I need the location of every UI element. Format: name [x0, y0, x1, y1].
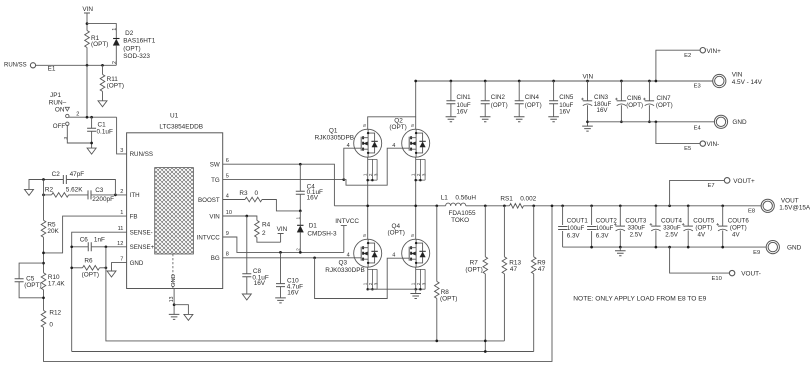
- svg-text:17.4K: 17.4K: [48, 281, 65, 288]
- svg-text:0.002: 0.002: [520, 196, 536, 203]
- svg-text:ON: ON: [55, 106, 65, 113]
- svg-text:7: 7: [120, 257, 123, 263]
- junction C5 bottom: [42, 296, 45, 299]
- svg-text:330uF: 330uF: [663, 225, 681, 232]
- svg-text:COUT3: COUT3: [625, 217, 647, 224]
- svg-text:C3: C3: [95, 187, 104, 194]
- svg-text:16V: 16V: [597, 107, 609, 114]
- svg-text:CMDSH-3: CMDSH-3: [307, 231, 337, 238]
- svg-text:(OPT): (OPT): [440, 296, 457, 303]
- wire cap gnd rail to E4: [588, 121, 715, 123]
- wire CIN7 bottom lead: [648, 105, 650, 122]
- wire E10 branch: [670, 247, 730, 273]
- svg-text:E9: E9: [753, 250, 760, 256]
- svg-text:8: 8: [226, 252, 229, 258]
- svg-text:VOUT-: VOUT-: [741, 271, 761, 278]
- diode D2: [113, 38, 119, 40]
- wire CIN3 top lead: [587, 81, 589, 101]
- svg-text:TOKO: TOKO: [451, 217, 469, 224]
- svg-text:(OPT): (OPT): [389, 124, 406, 131]
- wire CIN1 top lead: [450, 81, 452, 101]
- svg-text:VIN+: VIN+: [707, 48, 722, 55]
- svg-text:4: 4: [347, 253, 350, 259]
- svg-text:47pF: 47pF: [70, 171, 85, 178]
- svg-text:GND: GND: [732, 119, 747, 126]
- svg-text:6.3V: 6.3V: [596, 232, 610, 239]
- wire pin13 to triangle ground: [174, 305, 188, 315]
- wire VIN input rail: [416, 80, 713, 82]
- svg-text:R2: R2: [45, 186, 54, 193]
- svg-text:5: 5: [226, 174, 229, 180]
- svg-text:INTVCC: INTVCC: [197, 234, 221, 241]
- svg-text:100uF: 100uF: [567, 225, 585, 232]
- capacitor CIN2: [481, 101, 490, 104]
- svg-text:E1: E1: [48, 66, 56, 73]
- svg-text:GND: GND: [787, 245, 802, 252]
- svg-text:VIN: VIN: [209, 213, 219, 220]
- svg-text:2: 2: [262, 230, 266, 237]
- svg-text:E7: E7: [708, 183, 715, 189]
- resistor R6: [83, 266, 100, 271]
- junction TG riser: [342, 178, 345, 181]
- junction R7/SENSE+ rail: [484, 340, 487, 343]
- capacitor CIN6: [617, 100, 626, 102]
- junction BOOST/C4/D1: [299, 210, 302, 213]
- svg-text:16V: 16V: [457, 109, 469, 116]
- junction E7 riser: [668, 204, 671, 207]
- svg-text:E2: E2: [684, 53, 691, 59]
- capacitor C3: [88, 190, 91, 199]
- svg-text:0: 0: [255, 190, 259, 197]
- ground below Q3/Q4: [410, 294, 421, 299]
- wire COUT1 top lead: [562, 206, 564, 225]
- wire COUT6 bottom lead: [722, 231, 724, 248]
- junction comp node: [42, 194, 45, 197]
- resistor R8: [434, 281, 439, 298]
- wire E1 rail: [36, 64, 117, 66]
- wire D1 anode lead: [299, 232, 301, 252]
- svg-text:FB: FB: [130, 213, 138, 220]
- resistor R11: [100, 74, 105, 91]
- junction Q2/Q4 on SW rail: [414, 204, 417, 207]
- svg-text:(OPT): (OPT): [465, 267, 482, 274]
- junction COUT1 top: [561, 204, 564, 207]
- ground below CIN2: [480, 117, 491, 122]
- wire comp node vertical: [43, 180, 45, 221]
- wire CIN2 bottom lead: [484, 104, 486, 117]
- junction ITH/C2 branch: [114, 194, 117, 197]
- svg-text:2: 2: [296, 248, 302, 251]
- diode D1: [297, 224, 303, 226]
- wire C10 bottom lead: [280, 287, 282, 298]
- Q4 source pins: [414, 269, 425, 290]
- svg-text:(OPT): (OPT): [82, 271, 99, 278]
- wire COUT2 top lead: [591, 206, 593, 225]
- wire COUT4 bottom lead: [655, 231, 657, 248]
- wire CIN6 top lead: [620, 81, 622, 101]
- ground below R11: [98, 101, 107, 107]
- svg-text:RJK0330DPB: RJK0330DPB: [325, 267, 364, 274]
- ground bars below pin13: [169, 314, 180, 319]
- junction R6/SENSE+: [105, 266, 108, 269]
- wire CIN6 bottom lead: [620, 105, 622, 122]
- svg-text:RUN/SS: RUN/SS: [4, 63, 27, 69]
- wire FB return rail: [44, 206, 553, 362]
- junction COUT5 top: [687, 204, 690, 207]
- resistor R3: [245, 197, 262, 202]
- svg-text:VIN-: VIN-: [707, 141, 720, 148]
- junction VIN rail riser: [414, 80, 417, 83]
- power tap VIN: [84, 13, 90, 31]
- svg-text:FDA1055: FDA1055: [449, 210, 476, 217]
- wire VOUT gnd rail: [563, 246, 767, 248]
- wire OFF drop: [67, 126, 91, 144]
- wire TG riser to Q1 gate: [344, 148, 361, 179]
- capacitor C10: [276, 284, 285, 287]
- wire L1 to RS1: [466, 205, 510, 207]
- svg-text:R12: R12: [49, 309, 61, 316]
- junction VIN/D2: [86, 22, 89, 25]
- svg-text:2: 2: [112, 61, 118, 64]
- svg-text:9: 9: [226, 231, 229, 237]
- junction C10 top: [279, 251, 282, 254]
- junction C1 bottom: [90, 142, 93, 145]
- junction FB return riser: [551, 204, 554, 207]
- ground below CIN3: [582, 126, 593, 131]
- svg-text:COUT1: COUT1: [567, 217, 589, 224]
- svg-text:E3: E3: [694, 84, 701, 90]
- wire U1 pin7 to ground: [112, 263, 127, 271]
- svg-text:1: 1: [411, 173, 416, 176]
- wire R8 top lead: [436, 206, 438, 282]
- svg-text:0.1uF: 0.1uF: [97, 128, 113, 135]
- svg-text:VIN: VIN: [82, 6, 93, 13]
- svg-text:1: 1: [363, 282, 368, 285]
- svg-text:SENSE-: SENSE-: [130, 230, 153, 237]
- svg-text:TG: TG: [211, 177, 220, 184]
- svg-text:VIN: VIN: [583, 74, 594, 81]
- svg-text:3: 3: [374, 173, 379, 176]
- wire C5 branch bottom: [19, 282, 43, 298]
- wire D1 cathode lead: [299, 211, 301, 225]
- svg-text:2200pF: 2200pF: [92, 196, 114, 203]
- wire C8 top lead: [246, 216, 248, 274]
- wire R13 top lead: [503, 206, 505, 257]
- svg-text:C1: C1: [98, 121, 107, 128]
- wire C4 top lead: [299, 164, 301, 191]
- wire TG jog to Q2 gate: [344, 148, 409, 185]
- junction COUT2 bottom: [590, 246, 593, 249]
- terminal E9: [766, 241, 779, 254]
- wire CIN3 bottom lead: [587, 105, 589, 126]
- svg-text:2: 2: [416, 282, 421, 285]
- wire CIN2 top lead: [484, 81, 486, 101]
- junction COUT6 bottom: [721, 246, 724, 249]
- wire C3 to R2: [69, 194, 88, 196]
- junction CIN3/cap gnd rail: [586, 120, 589, 123]
- svg-text:(OPT): (OPT): [123, 45, 140, 52]
- svg-text:(OPT): (OPT): [695, 225, 712, 232]
- svg-text:3: 3: [120, 148, 123, 154]
- junction R10 top: [42, 262, 45, 265]
- junction E5 riser: [655, 120, 658, 123]
- junction CIN5 top: [552, 80, 555, 83]
- junction COUT5 bottom: [687, 246, 690, 249]
- wire SW from pin6: [223, 164, 335, 206]
- wire R1 bottom to E1 rail: [86, 48, 88, 66]
- svg-text:(OPT): (OPT): [730, 225, 747, 232]
- svg-text:C6: C6: [80, 237, 89, 244]
- svg-text:2: 2: [368, 282, 373, 285]
- wire R4 bottom to VIN tap: [257, 237, 281, 242]
- wire CIN7 top lead: [648, 81, 650, 101]
- svg-text:COUT5: COUT5: [693, 217, 715, 224]
- capacitor C8: [242, 274, 251, 277]
- junction CIN3 top: [586, 80, 589, 83]
- svg-text:COUT4: COUT4: [661, 217, 683, 224]
- wire CIN1 bottom lead: [450, 104, 452, 117]
- junction COUT4 bottom: [655, 246, 658, 249]
- svg-text:Q1: Q1: [329, 127, 338, 134]
- jumper JP1 pin3 circle: [66, 122, 69, 125]
- wire R11 top lead: [102, 65, 104, 74]
- junction E10 riser: [668, 246, 671, 249]
- wire Q1 source: [367, 157, 369, 206]
- wire R11 bottom lead: [102, 91, 104, 100]
- svg-text:3: 3: [63, 137, 69, 140]
- svg-text:CIN5: CIN5: [559, 94, 574, 101]
- resistor R12: [41, 310, 46, 327]
- wire C1 bottom lead: [91, 131, 93, 148]
- wire RUN/SS to U1 pin3: [117, 117, 127, 154]
- svg-text:1.5V@15A: 1.5V@15A: [779, 204, 810, 211]
- wire jumper to RUN/SS node: [69, 116, 117, 118]
- wire COUT3 bottom lead: [619, 231, 621, 248]
- svg-text:COUT2: COUT2: [596, 217, 618, 224]
- transistor Q3: [354, 239, 382, 267]
- svg-text:VIN: VIN: [732, 72, 743, 79]
- svg-text:(OPT): (OPT): [656, 102, 673, 109]
- inductor L1: [446, 203, 466, 206]
- svg-text:E5: E5: [684, 146, 691, 152]
- wire COUT1 bottom lead: [562, 231, 564, 247]
- wire SENSE+ from pin12: [91, 246, 126, 248]
- wire Q4 drain: [415, 206, 417, 239]
- terminal E5: [700, 141, 705, 146]
- junction E2 riser: [655, 80, 658, 83]
- svg-text:CIN1: CIN1: [457, 94, 472, 101]
- svg-text:20K: 20K: [47, 228, 59, 235]
- capacitor CIN4: [515, 101, 524, 104]
- svg-text:(OPT): (OPT): [525, 102, 542, 109]
- svg-text:CIN2: CIN2: [491, 94, 506, 101]
- resistor R7: [483, 257, 488, 274]
- wire SENSE- rail: [72, 351, 534, 353]
- ground comp network: [25, 189, 34, 195]
- ground below C8: [242, 294, 251, 300]
- svg-text:3: 3: [422, 282, 427, 285]
- junction R6/SENSE-: [70, 266, 73, 269]
- junction SW/C4: [299, 163, 302, 166]
- wire CIN4 bottom lead: [518, 104, 520, 117]
- wire U1 pad pin13: [173, 289, 175, 315]
- svg-text:1: 1: [120, 210, 123, 216]
- svg-text:3: 3: [422, 173, 427, 176]
- capacitor C6: [88, 242, 91, 251]
- wire COUT2 bottom lead: [591, 231, 593, 247]
- svg-text:4: 4: [347, 143, 350, 149]
- wire RS1 to VOUT rail: [524, 205, 762, 207]
- transistor Q1: [354, 129, 382, 157]
- IC U1 pad dashed stem: [172, 254, 174, 289]
- svg-text:4: 4: [392, 143, 395, 149]
- svg-text:5: 5: [410, 124, 416, 127]
- svg-text:BG: BG: [211, 255, 220, 262]
- capacitor COUT6: [718, 225, 727, 227]
- svg-text:2: 2: [76, 111, 79, 117]
- power tap INTVCC: [341, 226, 347, 253]
- svg-text:INTVCC: INTVCC: [335, 218, 359, 225]
- transistor Q4: [402, 239, 430, 267]
- junction CIN7 bottom: [648, 120, 651, 123]
- capacitor CIN7: [645, 100, 654, 102]
- junction BG jog: [313, 256, 316, 259]
- svg-text:ITH: ITH: [130, 192, 140, 199]
- ground below CIN1: [446, 117, 457, 122]
- svg-text:(OPT): (OPT): [491, 102, 508, 109]
- svg-text:10: 10: [226, 210, 232, 216]
- wire TG from pin5: [223, 179, 344, 181]
- svg-text:(OPT): (OPT): [24, 282, 41, 289]
- wire SENSE+ rail: [106, 247, 505, 341]
- svg-text:SW: SW: [210, 162, 220, 169]
- junction COUT3 bottom: [619, 246, 622, 249]
- svg-text:D1: D1: [309, 223, 318, 230]
- terminal E1: [30, 63, 35, 68]
- junction SENSE+ drop: [105, 245, 108, 248]
- svg-text:(OPT): (OPT): [91, 41, 108, 48]
- svg-text:16V: 16V: [287, 290, 299, 297]
- svg-text:SENSE+: SENSE+: [130, 244, 155, 251]
- svg-text:5.62K: 5.62K: [66, 186, 83, 193]
- junction FB node: [42, 252, 45, 255]
- wire COUT4 top lead: [655, 206, 657, 226]
- wire R6 left lead: [72, 267, 83, 269]
- wire SW rail: [334, 205, 445, 207]
- wire C8 bottom lead: [246, 277, 248, 294]
- ground below CIN4: [514, 117, 525, 122]
- svg-text:1: 1: [363, 173, 368, 176]
- svg-text:R6: R6: [84, 258, 93, 265]
- svg-text:RJK0305DPB: RJK0305DPB: [315, 135, 354, 142]
- capacitor COUT1: [558, 227, 567, 230]
- svg-text:OFF: OFF: [53, 123, 66, 130]
- svg-text:RUN–: RUN–: [49, 99, 67, 106]
- svg-text:16V: 16V: [254, 280, 266, 287]
- svg-text:R7: R7: [470, 259, 479, 266]
- wire R5 to FB node: [43, 237, 45, 272]
- wire COUT6 top lead: [722, 206, 724, 226]
- svg-text:RUN/SS: RUN/SS: [130, 151, 153, 158]
- wire R6 right lead: [100, 267, 106, 269]
- wire R2 to node: [44, 194, 52, 196]
- svg-text:1nF: 1nF: [94, 237, 105, 244]
- svg-text:GND: GND: [171, 274, 177, 287]
- junction R9 top: [532, 204, 535, 207]
- wire Q1 drain: [368, 81, 416, 129]
- svg-text:0: 0: [49, 322, 53, 329]
- svg-text:47: 47: [538, 266, 546, 273]
- svg-text:NOTE: ONLY APPLY LOAD FROM E8: NOTE: ONLY APPLY LOAD FROM E8 TO E9: [573, 295, 706, 302]
- svg-text:LTC3854EDDB: LTC3854EDDB: [159, 123, 203, 130]
- wire C5 branch top: [19, 263, 43, 279]
- wire C2 to ground: [29, 180, 63, 190]
- junction COUT6 top: [721, 204, 724, 207]
- svg-text:2: 2: [368, 173, 373, 176]
- junction CIN6 bottom: [620, 120, 623, 123]
- svg-text:BAS16HT1: BAS16HT1: [123, 38, 155, 45]
- ground below COUT3: [615, 251, 626, 256]
- wire E7 branch: [670, 180, 725, 205]
- svg-text:BOOST: BOOST: [198, 197, 220, 204]
- svg-text:R3: R3: [239, 190, 248, 197]
- junction C8 drop: [245, 215, 248, 218]
- wire C4 bottom lead: [299, 194, 301, 211]
- wire R9 bottom lead: [533, 274, 535, 352]
- junction C1 top: [90, 116, 93, 119]
- junction CIN6 top: [620, 80, 623, 83]
- svg-text:E4: E4: [694, 126, 702, 132]
- ground below CIN5: [548, 117, 559, 122]
- Q1 source pins: [366, 159, 377, 181]
- capacitor C5: [15, 279, 24, 282]
- wire ITH pin to C3: [91, 194, 127, 196]
- resistor R5: [41, 220, 46, 237]
- wire R3 to boost node: [262, 200, 300, 211]
- terminal E10: [729, 270, 734, 275]
- wire CIN5 bottom lead: [553, 104, 555, 117]
- IC U1 body: [127, 133, 223, 289]
- wire Q2 source: [415, 157, 417, 206]
- svg-text:D2: D2: [125, 30, 134, 37]
- terminal E4: [714, 115, 727, 128]
- svg-text:100uF: 100uF: [596, 225, 614, 232]
- jumper JP1 pin1 circle: [66, 114, 69, 117]
- wire Q3 source: [367, 267, 369, 289]
- capacitor COUT2: [587, 227, 596, 230]
- wire INTVCC from pin9: [223, 237, 344, 252]
- resistor R4: [255, 220, 260, 237]
- resistor RS1: [510, 204, 524, 209]
- svg-text:2.5V: 2.5V: [630, 232, 644, 239]
- junction pin13: [173, 303, 176, 306]
- svg-text:2.5V: 2.5V: [665, 232, 679, 239]
- svg-text:11: 11: [118, 226, 124, 232]
- svg-text:12: 12: [117, 241, 123, 247]
- junction E1 rail / main vertical: [86, 64, 89, 67]
- resistor R9: [531, 257, 536, 274]
- junction C6/SENSE-: [70, 245, 73, 248]
- svg-text:E8: E8: [748, 208, 755, 214]
- capacitor CIN5: [549, 101, 558, 104]
- junction COUT4 top: [655, 204, 658, 207]
- junction R13 top: [503, 204, 506, 207]
- resistor R10: [41, 273, 46, 290]
- wire VIN pin10: [223, 216, 257, 220]
- svg-text:C2: C2: [52, 171, 61, 178]
- resistor R1: [85, 31, 90, 48]
- svg-text:2: 2: [120, 189, 123, 195]
